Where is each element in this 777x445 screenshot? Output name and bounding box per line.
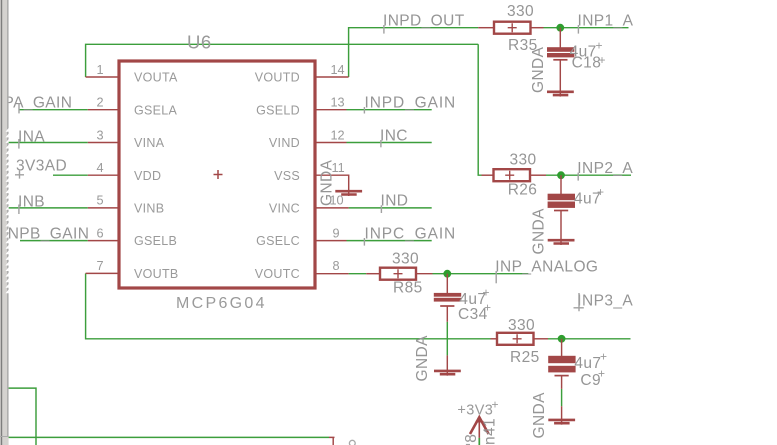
svg-text:INPC_GAIN: INPC_GAIN (365, 225, 457, 242)
pin 2 stub (88, 109, 119, 111)
svg-text:VDD: VDD (134, 169, 161, 183)
svg-text:2: 2 (96, 96, 103, 110)
tick INPC_GAIN origin (363, 238, 365, 246)
circle marker (cut symbol below) (349, 440, 355, 445)
pin 11 stub to ground (315, 175, 349, 196)
pin 13 stub (315, 109, 347, 111)
capacitor C18 plates (547, 47, 574, 52)
svg-text:PA_GAIN: PA_GAIN (4, 95, 73, 112)
svg-text:VINB: VINB (134, 202, 164, 216)
svg-text:330: 330 (392, 250, 419, 267)
pin 4 stub (88, 174, 119, 176)
tick INP1_A origin (577, 25, 579, 34)
torn page edge notches (6, 128, 9, 132)
wire GNDA segment below C34 (446, 322, 448, 356)
tick INP3_A origin cross (574, 293, 584, 311)
capacitor C18 lower plate line (553, 59, 567, 61)
pin 1 stub (86, 76, 119, 78)
svg-text:R25: R25 (510, 349, 540, 366)
svg-text:VINC: VINC (269, 202, 300, 216)
tick PA_GAIN origin (18, 103, 20, 113)
svg-text:VINA: VINA (134, 136, 165, 150)
ground GNDA below C9 (548, 420, 575, 423)
capacitor C9 lower lead (561, 376, 563, 389)
capacitor C9 lower plate line (555, 375, 569, 377)
svg-text:8: 8 (463, 434, 480, 443)
svg-text:INP1_A: INP1_A (578, 12, 634, 29)
svg-text:VSS: VSS (274, 169, 300, 183)
capacitor C9 lead from junction (561, 339, 563, 357)
pin 3 stub (88, 142, 119, 144)
supply +3V3 stem (478, 417, 480, 438)
svg-text:4: 4 (96, 161, 103, 175)
wire green below +3V3 (478, 438, 480, 445)
wire INPC_GAIN (pin9) (347, 240, 432, 242)
wire INPD_OUT right of R35 to junction and INP1_A (544, 27, 629, 29)
supply +3V3 arrow crossbar (476, 421, 484, 423)
capacitor C18 lower lead (559, 60, 561, 97)
svg-text:VOUTD: VOUTD (255, 71, 300, 85)
wire INPD_OUT: pin14 up then right to R35 (349, 28, 479, 77)
resistor R85 right lead (416, 273, 433, 275)
svg-text:6: 6 (96, 226, 103, 240)
svg-text:8: 8 (333, 259, 340, 273)
junction INP1_A (556, 24, 564, 32)
resistor R26 left lead (482, 174, 494, 176)
pin 10 stub (315, 207, 349, 209)
svg-text:3V3AD: 3V3AD (16, 158, 67, 175)
wire bottom-left horizontal upper (8, 388, 36, 445)
junction INP2_A (557, 171, 565, 179)
svg-text:13: 13 (331, 96, 345, 110)
wire INP_ANALOG right of R85 (433, 273, 529, 275)
svg-text:INP_ANALOG: INP_ANALOG (495, 259, 598, 276)
tick INC origin (380, 140, 382, 147)
svg-text:GSELD: GSELD (256, 103, 300, 117)
tick INA origin (18, 139, 20, 149)
svg-text:9: 9 (333, 226, 340, 240)
svg-text:INPD_OUT: INPD_OUT (383, 12, 465, 29)
tick IND origin (380, 205, 382, 213)
resistor R85 left lead (366, 273, 380, 275)
svg-text:GSELA: GSELA (134, 103, 178, 117)
tick INPD_OUT origin (383, 25, 385, 34)
pin 7 stub (86, 272, 119, 274)
capacitor lower plate line (INP2_A cap) (554, 210, 568, 212)
resistor R85 origin cross (394, 269, 403, 278)
capacitor C34 plates (434, 293, 461, 297)
ground GNDA below C34 (434, 371, 461, 374)
wire PA_GAIN (pin2) (19, 109, 88, 111)
pin 5 stub (88, 207, 119, 209)
junction INP3_A (558, 335, 566, 343)
svg-text:14: 14 (331, 63, 345, 77)
svg-text:330: 330 (508, 317, 535, 334)
U6 origin cross (214, 170, 223, 179)
svg-text:+: + (600, 350, 607, 364)
resistor R35 right lead (531, 27, 544, 29)
svg-text:U6: U6 (187, 32, 212, 53)
svg-text:+: + (597, 185, 604, 199)
wire GNDA segment below C9 (561, 389, 563, 406)
wire IND (pin10) (349, 207, 432, 209)
wire INPD_GAIN (pin13) (347, 109, 432, 111)
supply +3V3 symbol arrow (470, 417, 489, 434)
tick INB origin (18, 205, 20, 215)
left toolbar strip (0, 0, 9, 445)
wire red corner at end of bottom wire (329, 437, 335, 445)
resistor R35 left lead (478, 27, 494, 29)
wire INPB_GAIN (pin6) (20, 240, 88, 242)
svg-text:5: 5 (96, 194, 103, 208)
svg-text:+: + (484, 301, 491, 315)
resistor R35 body (494, 22, 531, 34)
svg-text:INA: INA (18, 128, 45, 145)
pin 6 stub (88, 240, 119, 242)
ground GNDA at pin 11 (335, 191, 362, 194)
junction INP_ANALOG (443, 270, 451, 278)
wire bottom horizontal (8, 436, 329, 438)
wire VOUTA net: pin1 up and across top of IC (86, 44, 479, 77)
wire red to ground below C9 (561, 406, 563, 425)
svg-text:INP3_A: INP3_A (577, 293, 633, 310)
svg-text:3: 3 (96, 128, 103, 142)
capacitor C34 lower lead (446, 306, 448, 322)
rotated text partial glyph below 8 (466, 444, 470, 445)
svg-text:GNDA: GNDA (531, 392, 548, 439)
svg-text:GSELB: GSELB (134, 234, 177, 248)
pin 14 stub (315, 76, 349, 78)
svg-text:GNDA: GNDA (414, 335, 431, 382)
ground GNDA below C18 (547, 92, 574, 95)
svg-text:R85: R85 (393, 280, 423, 297)
pin 8 stub (315, 273, 349, 275)
wire INA (pin3) (8, 142, 88, 144)
svg-text:GNDA: GNDA (319, 159, 336, 206)
svg-text:1: 1 (96, 63, 103, 77)
ground GNDA below INP2_A cap (548, 240, 575, 243)
svg-text:330: 330 (507, 3, 534, 20)
svg-text:7: 7 (96, 259, 103, 273)
wire INB (pin5) (8, 207, 88, 209)
svg-text:VOUTB: VOUTB (134, 267, 179, 281)
wire red to ground below C34 (446, 355, 448, 375)
capacitor C34 lower plate line (440, 305, 454, 307)
resistor R26 right lead (530, 174, 546, 176)
wire pin7 VOUTB down to INP3 row (86, 273, 491, 338)
svg-text:R26: R26 (508, 181, 538, 198)
svg-text:GNDA: GNDA (530, 46, 547, 93)
svg-text:INPD_GAIN: INPD_GAIN (365, 95, 457, 112)
resistor R85 body (380, 268, 416, 280)
svg-text:INP2_A: INP2_A (577, 160, 633, 177)
svg-text:+: + (483, 286, 490, 300)
resistor R25 origin cross (513, 334, 522, 343)
pin 12 stub (315, 142, 347, 144)
wire INC (pin12) (347, 142, 432, 144)
svg-text:+3V3: +3V3 (457, 403, 493, 419)
tick INP_ANALOG origin (495, 271, 497, 283)
resistor R25 left lead (491, 338, 498, 340)
capacitor plates (4u7 at INP2_A) (548, 194, 575, 201)
resistor R26 body (494, 169, 531, 181)
svg-text:GSELC: GSELC (256, 234, 300, 248)
tick INPD_GAIN origin (363, 107, 365, 114)
wire pin8 to R85 (349, 273, 367, 275)
svg-text:VIND: VIND (269, 136, 300, 150)
op-amp U6 MCP6G04 body (119, 61, 315, 288)
svg-text:n41: n41 (482, 418, 499, 445)
svg-text:12: 12 (331, 128, 345, 142)
svg-text:+: + (492, 398, 499, 412)
pin 9 stub (315, 240, 347, 242)
svg-text:+: + (598, 367, 605, 381)
resistor R25 body (497, 333, 534, 345)
svg-text:INB: INB (18, 193, 45, 210)
svg-text:INPB_GAIN: INPB_GAIN (3, 225, 89, 242)
capacitor C18 lead from junction (559, 28, 561, 48)
svg-text:INC: INC (380, 127, 408, 144)
capacitor C34 lead from junction (446, 274, 448, 294)
tick 3V3AD origin cross (15, 170, 24, 178)
resistor R25 right lead (534, 338, 549, 340)
svg-text:MCP6G04: MCP6G04 (176, 295, 267, 312)
svg-text:VOUTA: VOUTA (134, 71, 178, 85)
svg-text:+: + (599, 53, 606, 67)
wire 3V3AD (pin4) (53, 174, 88, 176)
capacitor lower lead (INP2_A cap) (560, 211, 562, 246)
wire INP3_A right of R25 (548, 338, 631, 340)
wire INP2_A right of R26 (546, 174, 631, 176)
tick INP2_A origin (577, 173, 579, 181)
svg-text:IND: IND (381, 193, 409, 210)
svg-text:GNDA: GNDA (531, 208, 548, 255)
wire VOUTA net vertical down to R26 (478, 44, 481, 175)
svg-text:C18: C18 (572, 54, 602, 71)
svg-text:VOUTC: VOUTC (255, 267, 300, 281)
svg-text:+: + (596, 39, 603, 53)
capacitor lead below INP2_A junction (560, 175, 562, 194)
capacitor C9 plates (548, 356, 575, 363)
resistor R35 origin cross (508, 23, 517, 32)
resistor R26 origin cross (505, 171, 514, 180)
svg-text:330: 330 (510, 152, 537, 169)
